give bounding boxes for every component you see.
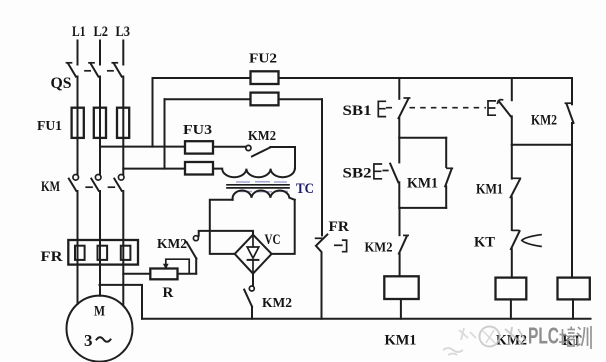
svg-text:KM2: KM2 xyxy=(531,113,557,129)
svg-text:FU1: FU1 xyxy=(37,119,62,134)
wire riser to FU2 bottom xyxy=(164,99,166,168)
wire right junction bar xyxy=(512,144,572,146)
coil KT xyxy=(558,278,590,300)
resistor R wire right xyxy=(178,273,197,275)
button SB1 contact xyxy=(399,98,410,118)
wire bridge DC- lead xyxy=(252,274,254,286)
watermark hanzi xun xyxy=(577,326,591,349)
transformer TC blue marks xyxy=(236,182,288,192)
wire bottom rail xyxy=(142,318,591,320)
thermal relay FR heater 2 xyxy=(98,246,108,260)
button SB1 second contact cap xyxy=(488,101,495,115)
wire secondary right to bridge xyxy=(272,200,295,254)
transformer TC primary winding xyxy=(213,169,295,178)
thermal relay FR heater 3 xyxy=(121,246,131,260)
coil KT bottom lead xyxy=(572,299,574,318)
svg-text:L1: L1 xyxy=(72,24,86,40)
svg-text:KM2: KM2 xyxy=(262,296,292,311)
resistor R box xyxy=(150,269,177,280)
contact KM2 primary (transformer switch) xyxy=(213,145,295,156)
wire control second rail xyxy=(165,98,323,100)
contactor KM pole 3 xyxy=(114,175,124,191)
svg-text:KM2: KM2 xyxy=(157,237,187,252)
button SB1 cap xyxy=(378,101,391,116)
fuse FU3 element top xyxy=(185,141,213,153)
watermark logo circle xyxy=(480,327,500,347)
wire latch branch bottom xyxy=(399,207,446,209)
svg-text:FR: FR xyxy=(329,219,350,235)
contactor KM pole 1 xyxy=(69,175,79,191)
rectifier VC diode xyxy=(247,237,259,271)
wire SB1 rail lower xyxy=(398,118,400,137)
resistor R wiper arrowhead xyxy=(163,264,169,270)
contact FR control bracket xyxy=(335,240,347,252)
wire phase L3 mid xyxy=(122,77,124,175)
node tap phase3 to FU3 wire xyxy=(123,168,185,170)
button SB2 cap xyxy=(374,164,388,179)
svg-text:KM: KM xyxy=(41,179,60,195)
wire secondary left to bridge xyxy=(210,200,235,254)
contact KM1 right xyxy=(511,145,521,230)
fuse FU3 element bottom xyxy=(185,162,213,175)
wire phase L2 mid xyxy=(99,77,101,175)
switch QS pole 3 xyxy=(112,63,121,77)
contact KM2 top right NC xyxy=(565,78,573,145)
fuse FU1 element 1 xyxy=(72,108,84,138)
wire phase L1 top xyxy=(77,41,79,65)
wire SB2 rail upper xyxy=(398,138,400,163)
wire bridge DC+ to KM2 contact xyxy=(199,231,253,236)
wire phase L3 top xyxy=(122,41,124,65)
wire transformer right drop xyxy=(294,147,296,169)
svg-text:FR: FR xyxy=(41,249,63,265)
fuse FU2 element bottom xyxy=(251,93,279,106)
wire control top rail xyxy=(153,77,573,79)
svg-text:TC: TC xyxy=(296,181,314,197)
contactor KM pole 2 xyxy=(91,175,101,191)
coil KM2 xyxy=(496,278,527,300)
contact KM1 latch xyxy=(445,138,452,208)
contact FR control blade xyxy=(316,235,327,319)
fuse FU1 element 3 xyxy=(117,108,129,138)
contact KT delayed xyxy=(511,230,541,277)
wire SB2 rail lower xyxy=(398,182,400,208)
svg-text:SB1: SB1 xyxy=(343,103,372,119)
svg-text:VC: VC xyxy=(265,232,281,248)
svg-text:KM2: KM2 xyxy=(365,241,393,256)
button SB2 contact xyxy=(390,164,398,183)
svg-text:FU2: FU2 xyxy=(249,52,277,67)
wire phase L2 top xyxy=(99,41,101,65)
switch QS pole 1 xyxy=(67,63,76,77)
resistor R wire left xyxy=(123,273,150,275)
svg-text:KT: KT xyxy=(474,235,495,251)
wire phase L1 lower xyxy=(77,191,79,304)
watermark squiggle xyxy=(443,348,463,355)
wire phase L3 lower xyxy=(122,191,124,305)
watermark faint marks xyxy=(459,328,476,340)
rectifier VC diamond xyxy=(235,235,272,274)
wire left control drop xyxy=(321,99,323,235)
svg-text:L2: L2 xyxy=(94,24,109,40)
wire KT coil branch xyxy=(571,145,573,278)
svg-text:QS: QS xyxy=(51,75,72,92)
fuse FU2 element top xyxy=(251,71,279,84)
svg-text:FU3: FU3 xyxy=(183,123,212,138)
contact FR control tick xyxy=(316,237,322,239)
wire SB1 rail upper xyxy=(398,78,400,99)
watermark gray strokes over KM2 xyxy=(505,327,526,345)
coil KM1 bottom lead xyxy=(400,299,402,319)
switch QS pole 2 xyxy=(89,63,98,77)
thermal relay FR heater 1 xyxy=(75,246,85,260)
switch QS linkage dashes xyxy=(85,70,113,72)
contact KM2 above coil KM1 xyxy=(399,208,408,276)
transformer TC secondary winding xyxy=(233,191,295,200)
svg-text:SB2: SB2 xyxy=(343,166,372,182)
contactor KM linkage dashes xyxy=(86,186,114,188)
svg-text:KM2: KM2 xyxy=(248,129,276,144)
svg-text:PLC: PLC xyxy=(528,323,559,349)
node tap phase2 to FU3 wire xyxy=(100,146,185,148)
svg-text:KM1: KM1 xyxy=(385,333,417,349)
coil KM2 bottom lead xyxy=(510,299,512,318)
coil KM1 xyxy=(384,276,418,299)
wire phase L2 lower xyxy=(99,191,101,296)
svg-text:L3: L3 xyxy=(116,24,131,40)
transformer TC core xyxy=(227,185,289,188)
watermark hanzi pei xyxy=(559,327,576,347)
contact KM2 braking lower xyxy=(244,286,254,319)
svg-text:KM1: KM1 xyxy=(476,182,503,198)
button SB1 second contact xyxy=(498,78,512,145)
wire phase L1 mid xyxy=(77,77,79,175)
svg-text:M: M xyxy=(94,304,105,320)
wire braking return to motor xyxy=(100,285,143,319)
thermal relay FR box xyxy=(68,240,138,265)
wire riser to FU2 top xyxy=(152,78,154,147)
svg-text:3: 3 xyxy=(84,331,93,350)
fuse FU1 element 2 xyxy=(94,108,106,138)
motor M circle xyxy=(67,296,133,362)
svg-text:R: R xyxy=(163,285,174,301)
resistor R wiper loop xyxy=(166,259,189,274)
svg-text:KM1: KM1 xyxy=(407,176,438,192)
button SB1 linkage dashed xyxy=(410,107,487,109)
contact KM2 braking upper xyxy=(187,236,199,274)
wire latch branch top xyxy=(399,137,446,139)
